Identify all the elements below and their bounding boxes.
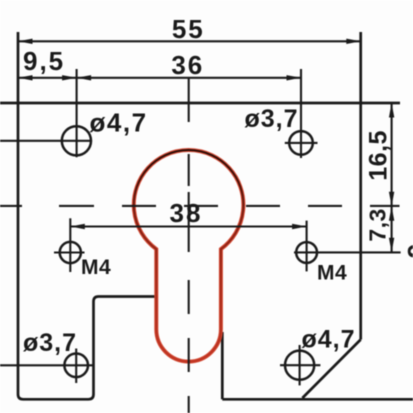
hole BL circle (ø3,7) [64,354,88,378]
arrow 7,3 top [389,206,394,221]
hole BR circle (ø4,7) [285,351,314,380]
hole MR vertical centerline [306,221,308,272]
arrow 55 right [346,39,361,44]
dash-dot vertical centerline x=188.7 [188,79,190,413]
hole TR horizontal centerline [285,142,318,144]
hole ML vertical centerline [69,218,71,272]
plate bottom edge right [222,398,413,401]
svg-text:9: 9 [402,244,413,258]
hole ML circle (M4 left) [60,242,81,263]
arrow 38 right [292,224,307,229]
arrow 38 left [70,224,85,229]
hole TR circle (ø3,7) [289,131,313,155]
plate chamfer edge [302,340,360,399]
svg-text:ø3,7: ø3,7 [245,105,299,133]
plate left edge [18,32,23,399]
plate bottom-left tab bottom edge [23,398,89,401]
dim line 38 [70,225,306,227]
plate step edge [94,297,156,302]
hole BR horizontal centerline [280,364,320,366]
plate tab right edge [89,302,94,400]
hole ML horizontal centerline [54,251,85,253]
hole MR horizontal centerline + extension [294,251,401,253]
arrow 9,5 right [62,75,77,80]
svg-text:55: 55 [172,14,205,44]
svg-text:ø4,7: ø4,7 [90,108,148,138]
euro cylinder profile (dark core stroke) [134,150,244,362]
hole TL horizontal centerline [0,140,92,142]
dim line 16,5 [391,103,393,206]
arrow 55 left [18,39,33,44]
svg-text:M4: M4 [81,256,111,279]
hole MR circle (M4 right) [296,242,317,263]
svg-text:ø3,7: ø3,7 [23,329,77,357]
svg-text:16,5: 16,5 [364,130,392,181]
hole TR vertical centerline / extension [300,69,302,158]
hole BL vertical centerline [75,349,77,384]
arrow 7,3 bottom [389,238,394,253]
dim line 9,5 and 36 [18,77,301,79]
hole TL vertical centerline / extension [76,69,78,157]
arrow 36 right [287,75,302,80]
svg-text:9,5: 9,5 [23,46,65,76]
arrow 16,5 top [389,103,394,118]
plate top edge [0,102,400,105]
svg-text:38: 38 [170,198,203,228]
dash-dot horizontal centerline y=205.9 [0,205,400,207]
hole BR vertical centerline [299,345,301,385]
arrow 9,5 left [18,75,33,80]
hole BL horizontal centerline [0,364,93,366]
euro cylinder profile (red outer stroke) [134,150,244,362]
hole TL circle (ø4,7) [62,126,91,155]
plate right edge [359,32,362,340]
svg-text:ø4,7: ø4,7 [302,326,356,354]
dim line 7,3 [391,206,393,252]
svg-text:36: 36 [171,50,204,80]
svg-text:M4: M4 [317,262,347,285]
arrow 16,5 bottom [389,192,394,207]
slot right edge [221,332,224,399]
dim line 55 [18,40,361,42]
arrow 36 left [77,75,92,80]
svg-text:7,3: 7,3 [364,208,390,241]
